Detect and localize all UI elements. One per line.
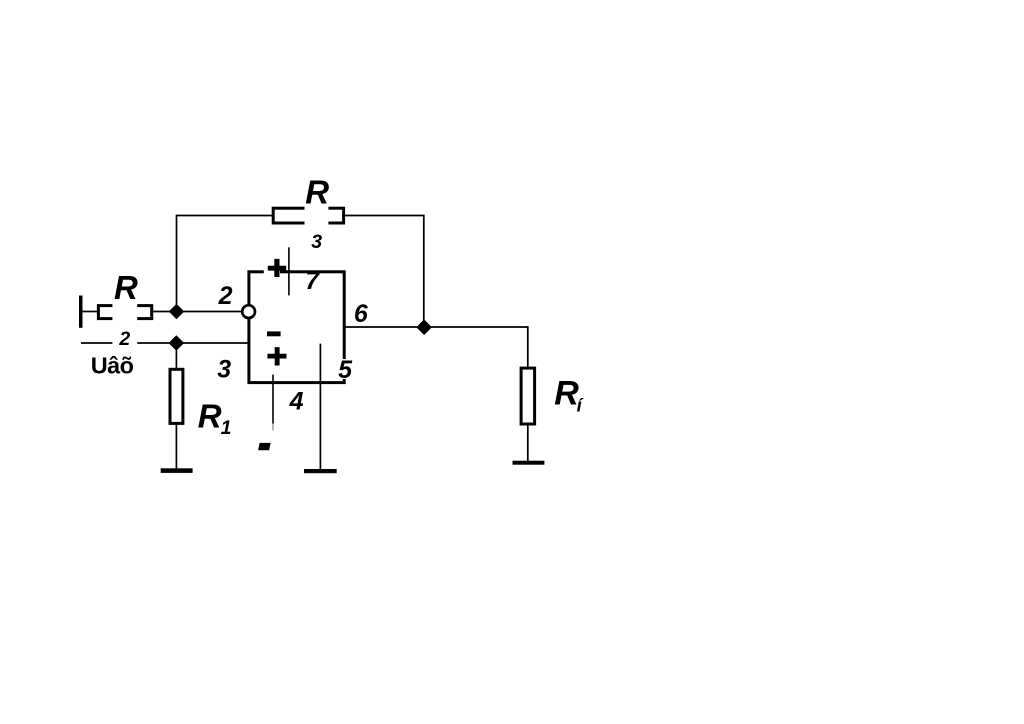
op-amp plus marker lower (267, 347, 286, 365)
wire node B down to R1 (175, 343, 177, 369)
svg-text:R: R (554, 374, 579, 412)
pin 4 lead (272, 375, 274, 431)
node A junction (169, 304, 185, 320)
ground under pin 5 (304, 469, 337, 473)
resistor R1 body (170, 369, 183, 423)
label R3 background gap (305, 179, 329, 248)
svg-text:R: R (198, 398, 222, 435)
svg-text:1: 1 (221, 417, 232, 439)
wire node A up and top-left feedback segment (177, 216, 273, 312)
resistor R3 body (273, 208, 343, 223)
resistor Rn body (521, 368, 535, 424)
svg-text:3: 3 (311, 231, 322, 253)
svg-text:6: 6 (354, 300, 369, 328)
ground under R1 (161, 468, 193, 473)
node B junction (169, 335, 185, 351)
svg-text:3: 3 (217, 356, 231, 384)
svg-text:5: 5 (338, 356, 353, 384)
inverting input bubble pin 2 (242, 305, 255, 318)
pin label 5 background gap (338, 359, 352, 379)
wire R3 to output node C (345, 216, 424, 328)
input terminal (79, 296, 83, 328)
wire input lower lead (Uâõ) to node B (81, 342, 176, 344)
resistor R2 body (98, 306, 151, 319)
ground under Rn (513, 461, 545, 465)
wire node A to op-amp pin 2 bubble (177, 311, 244, 313)
minus supply marker (258, 443, 271, 450)
op-amp plus marker top (268, 259, 286, 277)
svg-text:4: 4 (289, 388, 304, 416)
pin 7 lead (288, 247, 290, 295)
node C junction (416, 319, 432, 335)
wire Rn to ground (527, 422, 529, 462)
wire R1 to ground (175, 422, 177, 470)
svg-text:R: R (114, 269, 138, 306)
label R2 background gap (112, 274, 137, 352)
wire op-amp output pin 6 to node C and to Rn (345, 327, 528, 368)
svg-text:2: 2 (218, 282, 233, 310)
svg-text:Uâõ: Uâõ (91, 353, 134, 379)
pin 5 lead (319, 344, 321, 471)
plus marker background gap (264, 262, 280, 281)
wire input upper lead (83, 311, 99, 313)
op-amp U1 box (249, 272, 344, 383)
svg-text:7: 7 (305, 267, 320, 295)
op-amp minus marker (267, 331, 281, 336)
svg-text:2: 2 (118, 328, 130, 350)
svg-text:R: R (305, 174, 329, 211)
wire R2 to node A (152, 311, 177, 313)
wire node B to op-amp pin 3 (176, 342, 249, 344)
